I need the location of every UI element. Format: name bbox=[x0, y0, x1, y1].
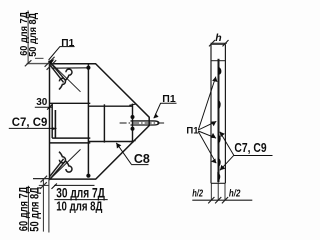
svg-text:50 для 8Д: 50 для 8Д bbox=[28, 187, 42, 232]
svg-text:30: 30 bbox=[36, 97, 48, 108]
svg-text:C7, C9: C7, C9 bbox=[234, 140, 266, 155]
svg-text:П1: П1 bbox=[186, 126, 199, 137]
svg-text:h: h bbox=[215, 32, 221, 44]
svg-text:C7, C9: C7, C9 bbox=[12, 115, 48, 129]
svg-text:50 для 8Д: 50 для 8Д bbox=[28, 12, 39, 57]
svg-text:C8: C8 bbox=[134, 152, 150, 166]
svg-text:h/2: h/2 bbox=[229, 188, 241, 200]
svg-text:10 для 8Д: 10 для 8Д bbox=[56, 198, 103, 213]
svg-text:П1: П1 bbox=[61, 38, 74, 49]
svg-text:h/2: h/2 bbox=[192, 188, 203, 200]
